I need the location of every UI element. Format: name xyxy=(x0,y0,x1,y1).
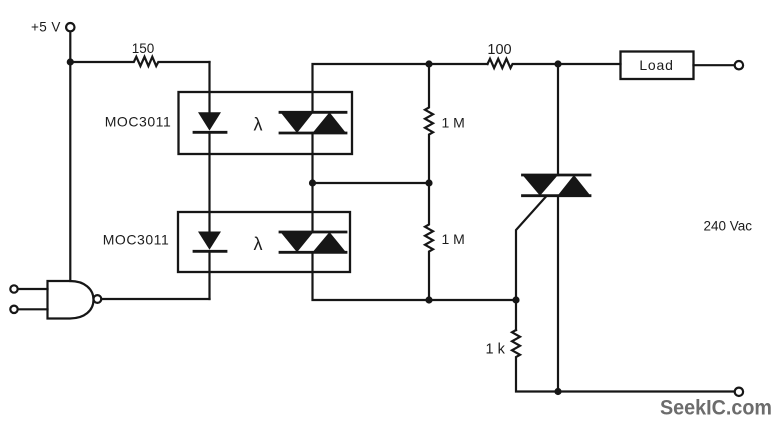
LED D2 of U2 xyxy=(198,232,221,250)
svg-text:240 Vac: 240 Vac xyxy=(704,219,753,234)
wire NAND output to LED2 cathode xyxy=(101,298,209,300)
svg-text:λ: λ xyxy=(254,115,263,135)
wire U1 triac bottom to U2 triac top xyxy=(311,133,313,232)
node F junction dot lower rail at 1M xyxy=(425,296,432,303)
terminal input 2 xyxy=(10,306,17,313)
resistor R2 100 (with leads) xyxy=(488,59,621,68)
svg-text:λ: λ xyxy=(254,234,263,254)
triac of U2 right triangle xyxy=(313,232,347,252)
triac of U1 bottom bar xyxy=(280,132,346,135)
wire input 1 stub xyxy=(18,288,48,290)
node H junction dot gate / lower rail xyxy=(512,296,519,303)
triac Q1 main xyxy=(523,64,591,196)
svg-text:MOC3011: MOC3011 xyxy=(105,114,172,130)
wire Q1 gate lead xyxy=(516,197,546,331)
svg-text:1 k: 1 k xyxy=(486,342,506,358)
NAND gate U3 body xyxy=(48,281,94,319)
svg-text:150: 150 xyxy=(132,41,155,56)
op-amp U1 MOC3011 box xyxy=(179,92,353,154)
node B junction dot between optocouplers xyxy=(309,179,316,186)
wire LED1 cathode to LED2 anode xyxy=(208,132,210,231)
node G junction dot bottom rail at Q1 xyxy=(554,388,561,395)
node A junction dot on +5V rail xyxy=(67,58,74,65)
svg-text:Load: Load xyxy=(639,57,673,73)
wire top rail corner down to U1 triac xyxy=(313,64,488,112)
wire +5V vertical down to NAND gate xyxy=(69,32,71,281)
triac Q1 right triangle xyxy=(558,175,591,196)
resistor R4 1M lower (with leads) xyxy=(425,183,433,300)
resistor R5 1k xyxy=(512,330,735,392)
svg-text:+5 V: +5 V xyxy=(31,20,61,35)
svg-text:1 M: 1 M xyxy=(442,231,465,247)
wire load to AC terminal top xyxy=(694,64,735,66)
triac of U1 right triangle xyxy=(313,112,347,133)
op-amp U2 MOC3011 box xyxy=(178,212,350,272)
svg-text:SeekIC.com: SeekIC.com xyxy=(660,396,772,420)
terminal AC bottom xyxy=(735,388,743,396)
terminal +5V input xyxy=(66,23,74,31)
svg-text:1 M: 1 M xyxy=(442,115,465,131)
wire input 2 stub xyxy=(18,308,48,310)
resistor R1 150 (with leads) xyxy=(70,57,209,66)
terminal AC top xyxy=(735,61,743,69)
wire LED2 cathode to NAND output xyxy=(208,251,210,299)
triac of U2 left triangle xyxy=(281,232,314,252)
LED D1 of U1 xyxy=(198,112,221,130)
triac of U1 top bar xyxy=(280,111,346,114)
triac Q1 top bar xyxy=(523,174,591,177)
triac of U2 bottom bar xyxy=(280,251,346,254)
svg-text:MOC3011: MOC3011 xyxy=(103,232,170,248)
NAND gate U3 inversion bubble xyxy=(94,295,102,303)
wire resistor R1 to LED1 anode xyxy=(208,62,210,112)
triac of U2 top bar xyxy=(280,231,346,234)
wire Q1 MT1 down to bottom rail xyxy=(557,196,559,392)
LED D1 cathode bar xyxy=(194,131,226,134)
terminal input 1 xyxy=(10,285,17,292)
triac Q1 left triangle xyxy=(523,175,559,196)
resistor R3 1M upper (with leads) xyxy=(425,64,433,183)
load box xyxy=(621,52,694,80)
triac Q1 bottom bar xyxy=(523,194,591,197)
triac of U1 left triangle xyxy=(281,112,314,133)
node D junction dot top rail at 1M xyxy=(425,60,432,67)
node E junction dot top rail at triac xyxy=(554,60,561,67)
NAND gate U3 xyxy=(10,281,101,319)
node C junction dot 1M divider tap xyxy=(425,179,432,186)
wire node B to 1M divider tap xyxy=(313,182,430,184)
svg-text:100: 100 xyxy=(487,42,511,58)
LED D2 cathode bar xyxy=(194,250,226,253)
wire top rail to Q1 MT2 xyxy=(557,64,559,175)
wire U2 triac bottom to lower rail xyxy=(313,252,517,300)
